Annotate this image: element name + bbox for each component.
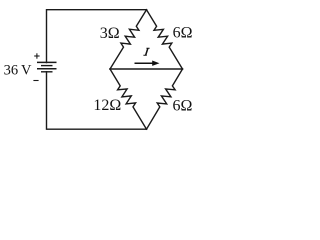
wire bottom from battery to diamond bottom vertex <box>47 72 147 130</box>
wire middle node <box>110 68 183 70</box>
svg-text:3Ω: 3Ω <box>100 25 120 42</box>
current arrow I <box>135 61 160 66</box>
svg-text:36 V: 36 V <box>4 62 32 78</box>
resistor 3 ohm (top-left edge) <box>110 10 147 69</box>
resistor 6 ohm (bottom-right edge) <box>147 69 183 129</box>
svg-text:6Ω: 6Ω <box>173 98 193 115</box>
wire top from battery to diamond top vertex <box>47 10 147 63</box>
svg-text:12Ω: 12Ω <box>93 97 121 114</box>
battery minus sign <box>33 80 38 82</box>
resistor 6 ohm (top-right edge) <box>147 10 183 69</box>
svg-text:6Ω: 6Ω <box>173 25 193 42</box>
resistor 12 ohm (bottom-left edge) <box>110 69 147 129</box>
battery V1 36V plates <box>37 62 57 71</box>
label I current <box>143 48 149 56</box>
battery plus sign <box>34 53 39 58</box>
